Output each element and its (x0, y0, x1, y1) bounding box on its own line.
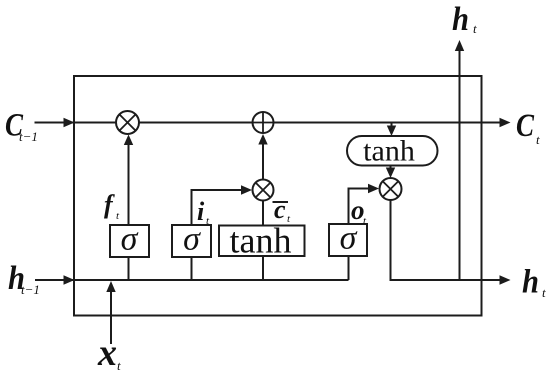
h output line (390, 279, 502, 281)
wire: h_t branch up through top of box (459, 50, 461, 281)
output gate sigma box (329, 224, 367, 256)
arrow up h_t top (455, 40, 464, 51)
wire: output multiply down to h output line (390, 199, 392, 281)
wire: input multiply up to add node (262, 144, 264, 181)
svg-text:tanh: tanh (230, 221, 292, 261)
svg-text:σ: σ (340, 220, 358, 257)
arrow into multiply node from below (124, 135, 133, 146)
svg-text:t−1: t−1 (19, 129, 38, 144)
svg-text:t: t (117, 358, 121, 373)
wire: forget gate up to multiply (128, 144, 130, 225)
wire: tanh pill down to output multiply (390, 166, 392, 169)
x_t input arrow (110, 291, 112, 344)
svg-text:σ: σ (121, 221, 139, 258)
svg-text:C: C (516, 108, 535, 144)
wire: input gate up and right to input multiply (192, 190, 243, 225)
arrow into box on h line (64, 275, 75, 284)
svg-text:h: h (452, 1, 469, 38)
arrow down from c line into tanh pill (391, 123, 393, 127)
wire: tanh layer up to input multiply (262, 199, 264, 225)
add node (c line) (253, 112, 274, 133)
h input line (35, 279, 349, 281)
svg-text:t−1: t−1 (21, 282, 40, 297)
svg-text:t: t (536, 132, 540, 147)
svg-text:h: h (522, 264, 539, 301)
svg-text:x: x (97, 332, 117, 374)
arrow into input multiply from left (241, 185, 252, 194)
wire: forget gate down to h line (128, 257, 130, 280)
arrow out of box c_t (500, 118, 511, 127)
wire: tanh layer down to h line (262, 257, 264, 280)
arrow into output multiply from left (368, 184, 379, 193)
svg-text:tanh: tanh (363, 135, 415, 168)
output multiply node (380, 178, 402, 200)
outer LSTM cell box (74, 76, 482, 316)
arrow out of box h_t right (500, 275, 511, 284)
wire: input gate down to h line (191, 257, 193, 280)
forget gate sigma box (110, 225, 149, 257)
tanh layer box (219, 226, 305, 257)
wire: output gate up and right to output multiply (349, 189, 370, 225)
svg-text:σ: σ (183, 221, 201, 258)
input multiply node (253, 180, 274, 201)
multiply node forget (c line) (116, 111, 139, 134)
svg-text:t: t (542, 285, 546, 300)
cell state line c (35, 122, 502, 124)
arrow into add node from below (258, 134, 267, 145)
tanh pill (output activation) (347, 136, 438, 166)
svg-text:t: t (473, 21, 477, 36)
wire: output gate down to h line (348, 256, 350, 280)
svg-text:c: c (274, 195, 286, 224)
arrow into box on c line (64, 118, 75, 127)
input gate sigma box (172, 225, 211, 257)
svg-text:i: i (197, 197, 205, 226)
